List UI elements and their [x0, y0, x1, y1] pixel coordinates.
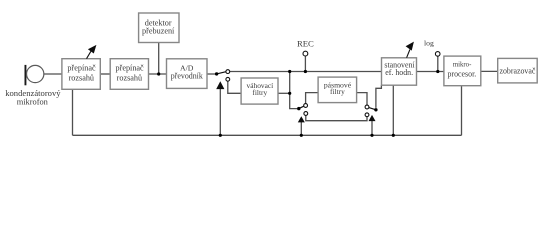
- svg-text:rozsahů: rozsahů: [117, 74, 142, 83]
- svg-text:převodník: převodník: [171, 71, 203, 80]
- svg-text:kondenzátorový: kondenzátorový: [5, 88, 61, 98]
- svg-text:mikro-: mikro-: [453, 61, 472, 68]
- svg-text:filtry: filtry: [252, 88, 267, 97]
- svg-text:přebuzení: přebuzení: [142, 27, 175, 36]
- svg-text:ef. hodn.: ef. hodn.: [385, 68, 413, 77]
- svg-text:přepínač: přepínač: [67, 64, 96, 73]
- svg-text:zobrazovač: zobrazovač: [499, 67, 535, 76]
- svg-text:log: log: [424, 38, 434, 47]
- svg-text:REC: REC: [297, 39, 314, 49]
- svg-text:procesor.: procesor.: [448, 69, 477, 78]
- svg-text:mikrofon: mikrofon: [17, 97, 49, 106]
- svg-text:rozsahů: rozsahů: [69, 74, 94, 83]
- svg-text:přepínač: přepínač: [116, 64, 145, 73]
- svg-text:filtry: filtry: [330, 87, 345, 96]
